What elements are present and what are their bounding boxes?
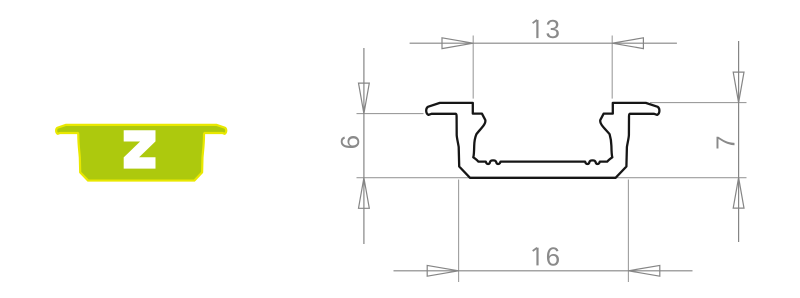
dimension line: right (7) vertical (738, 41, 740, 242)
extension line: top dim left vertical (472, 36, 474, 99)
arrowhead: top dim right (points left) (612, 38, 643, 49)
extension line: bottom horizontal (profile bottom level) (357, 177, 747, 179)
profile type icon (green silhouette) (56, 125, 226, 181)
svg-text:6: 6 (335, 135, 365, 149)
arrowhead: right dim upper (points down) (733, 72, 744, 103)
dimension line: top (13) (410, 42, 677, 44)
svg-text:3: 3 (545, 14, 559, 44)
extension line: top dim right vertical (611, 36, 613, 99)
extension line: bottom dim right vertical (627, 180, 629, 283)
arrowhead: bottom dim left (points right) (427, 265, 458, 276)
arrowhead: top dim left (points right) (442, 38, 473, 49)
dimension line: left (6) vertical (363, 48, 365, 244)
svg-text:6: 6 (546, 242, 560, 272)
letter Z (124, 130, 156, 168)
extension line: bottom dim left vertical (458, 180, 460, 283)
profile cross-section outline (426, 103, 659, 178)
arrowhead: left dim lower (points up) (359, 178, 370, 209)
dimension text 13 (533, 20, 538, 38)
svg-text:7: 7 (711, 135, 741, 149)
arrowhead: right dim lower (points up) (733, 178, 744, 209)
extension line: left dim upper horizontal (wing underside level) (357, 113, 424, 115)
arrowhead: left dim upper (points down) (359, 83, 370, 114)
dimension line: bottom (16) (394, 270, 693, 272)
dimension text 16 (533, 248, 538, 266)
extension line: right dim upper horizontal (wing top level) (650, 102, 747, 104)
arrowhead: bottom dim right (points left) (628, 265, 659, 276)
